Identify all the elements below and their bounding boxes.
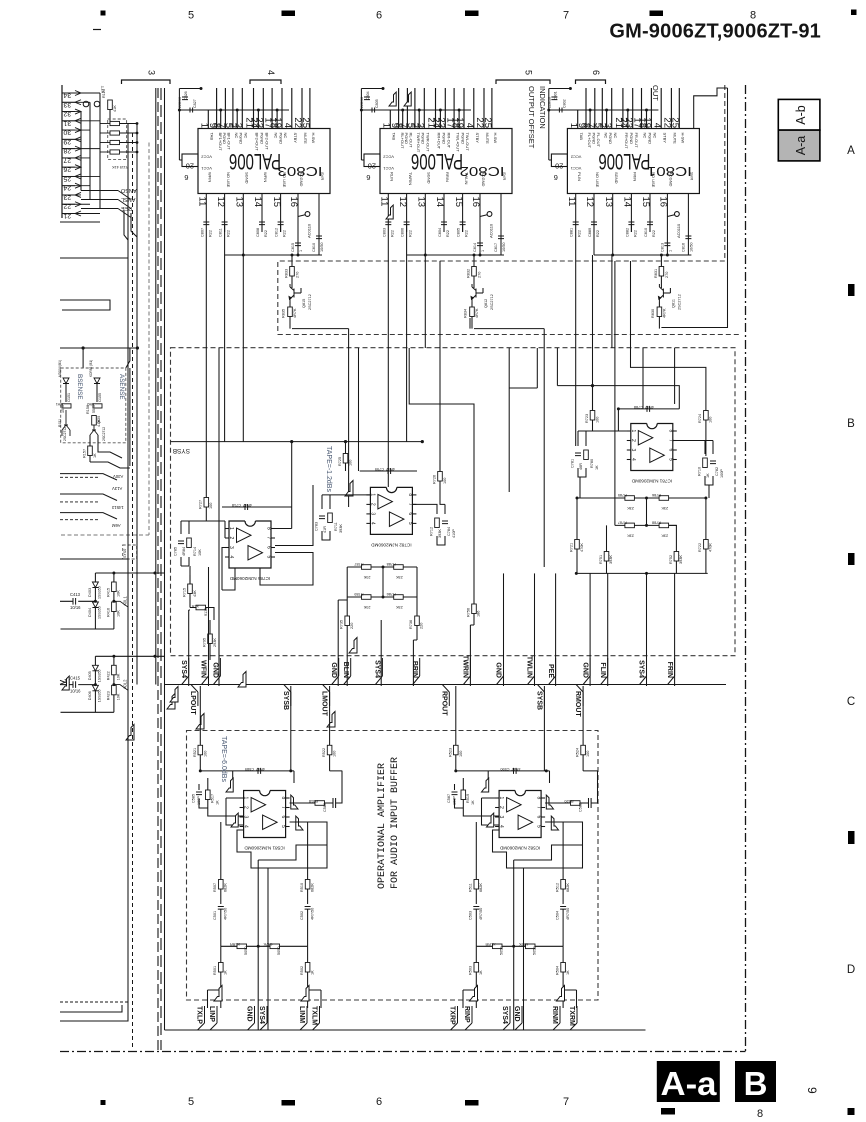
IC802 input RC network xyxy=(382,194,506,257)
svg-text:R502: R502 xyxy=(300,966,304,975)
svg-text:D403: D403 xyxy=(88,588,92,597)
svg-text:7: 7 xyxy=(563,1096,569,1108)
svg-text:SYS4: SYS4 xyxy=(638,660,645,678)
svg-text:5: 5 xyxy=(280,825,286,828)
transistor Q151 2SC2712 xyxy=(62,410,70,436)
fold mark right 1 xyxy=(848,284,855,296)
svg-text:IC581 NJM2060MD: IC581 NJM2060MD xyxy=(244,846,285,851)
capacitor C504 4R7/50 xyxy=(560,907,566,910)
svg-text:14513: 14513 xyxy=(111,505,123,510)
resistor R725 100 xyxy=(343,454,348,464)
svg-text:4R7/50: 4R7/50 xyxy=(479,908,483,920)
resistor R710 1K + capacitor C782 xyxy=(673,441,713,499)
svg-text:23K: 23K xyxy=(661,506,668,510)
svg-text:C589: C589 xyxy=(245,767,254,771)
svg-text:A6M: A6M xyxy=(112,523,121,528)
svg-text:C781: C781 xyxy=(571,459,575,468)
resistor R723 100 xyxy=(590,411,595,421)
svg-text:1SS355: 1SS355 xyxy=(98,586,102,599)
svg-text:R789: R789 xyxy=(354,592,363,596)
svg-text:TAB: TAB xyxy=(392,133,397,141)
svg-text:4R7K: 4R7K xyxy=(263,942,273,946)
svg-text:3: 3 xyxy=(369,512,375,515)
svg-text:SGND: SGND xyxy=(614,172,619,184)
svg-text:R422: R422 xyxy=(107,671,111,680)
svg-text:20: 20 xyxy=(186,162,194,171)
IC802 pin20 notch xyxy=(364,154,380,167)
decoupling caps C805-C806 xyxy=(360,89,362,161)
svg-text:23K: 23K xyxy=(363,605,370,609)
svg-text:FOR AUDIO INPUT BUFFER: FOR AUDIO INPUT BUFFER xyxy=(390,757,401,889)
svg-text:10K: 10K xyxy=(117,610,121,617)
IC803 input RC network xyxy=(200,194,324,257)
op-amp IC581 NJM2060MD xyxy=(240,791,290,851)
svg-text:C801: C801 xyxy=(553,91,557,100)
svg-text:NO USE: NO USE xyxy=(226,172,231,188)
svg-text:7: 7 xyxy=(280,806,286,809)
svg-text:C827: C827 xyxy=(193,99,197,108)
svg-text:10K: 10K xyxy=(198,549,202,556)
svg-text:R22: R22 xyxy=(596,230,600,237)
svg-text:C882: C882 xyxy=(625,228,629,237)
svg-text:470K: 470K xyxy=(580,543,584,552)
svg-text:R711: R711 xyxy=(334,522,338,531)
svg-text:3: 3 xyxy=(630,449,636,452)
svg-text:PEE: PEE xyxy=(547,664,554,678)
svg-text:C806: C806 xyxy=(401,228,405,237)
feedback resistors 23K grid xyxy=(362,565,372,570)
svg-text:C804: C804 xyxy=(438,228,442,237)
svg-text:NC: NC xyxy=(653,133,658,139)
svg-text:1K: 1K xyxy=(706,473,710,478)
resistor R724 100 xyxy=(704,411,709,421)
svg-text:1: 1 xyxy=(668,250,672,252)
svg-text:NC: NC xyxy=(244,133,249,139)
legend box A-a xyxy=(778,130,820,161)
svg-text:23K: 23K xyxy=(363,575,370,579)
svg-text:6: 6 xyxy=(591,70,601,75)
svg-text:TWL-OUT: TWL-OUT xyxy=(465,133,470,152)
signal wires from ICs down to preamp section xyxy=(205,232,207,497)
wire rail under IC803 xyxy=(225,254,322,256)
resistor R735 220 xyxy=(345,616,350,626)
resistor R521 100 xyxy=(199,686,201,745)
svg-text:R504: R504 xyxy=(556,966,560,975)
registration mark bottom bar 1 xyxy=(282,1100,296,1106)
svg-text:1K: 1K xyxy=(566,970,570,975)
svg-text:C502: C502 xyxy=(300,911,304,920)
svg-text:100: 100 xyxy=(443,478,447,484)
svg-text:C785: C785 xyxy=(174,547,178,556)
svg-text:228/16: 228/16 xyxy=(547,97,551,108)
wire step right xyxy=(509,387,537,389)
svg-text:D405: D405 xyxy=(88,671,92,680)
svg-text:C415: C415 xyxy=(70,675,81,680)
svg-text:RL-OUT: RL-OUT xyxy=(409,133,414,148)
svg-text:220: 220 xyxy=(350,623,354,629)
svg-text:1: 1 xyxy=(299,250,303,252)
svg-text:23K: 23K xyxy=(395,575,402,579)
svg-text:C784: C784 xyxy=(447,527,451,536)
svg-text:VCC1: VCC1 xyxy=(201,166,212,171)
svg-text:3: 3 xyxy=(146,70,156,75)
svg-text:MUTE: MUTE xyxy=(485,133,490,145)
svg-text:1K: 1K xyxy=(224,970,228,975)
svg-text:RMOUT: RMOUT xyxy=(574,691,581,717)
svg-text:4R7K: 4R7K xyxy=(662,308,666,318)
diode D151 xyxy=(63,378,69,384)
svg-text:OPERATIONAL AMPLIFIER: OPERATIONAL AMPLIFIER xyxy=(377,763,388,889)
svg-text:1: 1 xyxy=(228,527,234,530)
svg-text:R830: R830 xyxy=(651,309,655,318)
resistor R518 + capacitor C586 feedback xyxy=(290,771,342,808)
svg-text:25: 25 xyxy=(670,117,681,128)
registration mark bottom bar under A-a xyxy=(661,1108,675,1115)
svg-text:BF2-OUT: BF2-OUT xyxy=(265,133,270,151)
svg-text:R788: R788 xyxy=(387,562,396,566)
svg-text:D: D xyxy=(847,964,855,976)
svg-text:270: 270 xyxy=(296,272,300,278)
svg-text:TAPE=-1.2dBs: TAPE=-1.2dBs xyxy=(325,446,332,492)
svg-text:41K: 41K xyxy=(113,105,117,112)
svg-text:5050: 5050 xyxy=(244,947,248,955)
terminal AC0110 IC802 xyxy=(487,212,492,217)
svg-text:PGND: PGND xyxy=(278,133,283,145)
svg-text:100: 100 xyxy=(586,751,590,757)
svg-text:C503: C503 xyxy=(469,911,473,920)
terminal AC0110 IC801 xyxy=(675,212,680,217)
svg-text:5: 5 xyxy=(266,556,272,559)
svg-text:R756: R756 xyxy=(467,608,471,617)
wire IC801 mute and H-SW loop xyxy=(661,88,727,328)
signal flags bottom xyxy=(214,986,222,1002)
svg-text:410P: 410P xyxy=(452,529,456,538)
svg-text:393K: 393K xyxy=(438,529,442,538)
svg-text:VCC2: VCC2 xyxy=(201,155,212,160)
svg-text:2: 2 xyxy=(243,806,249,809)
wire C799 top xyxy=(360,470,417,472)
svg-text:5: 5 xyxy=(407,522,413,525)
svg-text:23K: 23K xyxy=(627,506,634,510)
svg-text:TXRM: TXRM xyxy=(568,1006,575,1026)
svg-text:25: 25 xyxy=(482,117,493,128)
svg-text:R512: R512 xyxy=(556,883,560,892)
svg-text:VCC2: VCC2 xyxy=(570,155,581,160)
signal flags above IC802 xyxy=(389,92,396,106)
svg-text:R785: R785 xyxy=(618,493,627,497)
svg-text:NC: NC xyxy=(604,133,609,139)
svg-text:R520: R520 xyxy=(564,799,573,803)
capacitor C589 xyxy=(258,768,261,774)
capacitor C781 + resistor R780 xyxy=(577,431,631,498)
svg-text:PGND: PGND xyxy=(442,133,447,145)
svg-text:SVR: SVR xyxy=(502,172,507,180)
muting transistor cluster R832 xyxy=(464,254,495,329)
capacitor C788 xyxy=(618,408,680,410)
svg-text:5050: 5050 xyxy=(533,947,537,955)
svg-text:TWRIN: TWRIN xyxy=(462,655,469,678)
vertical bus solid x128 xyxy=(127,124,129,1010)
grey dashed wire y535 xyxy=(61,534,149,536)
svg-text:STBY: STBY xyxy=(475,133,480,144)
wires IC782 to bus xyxy=(338,600,417,686)
signal flags left column xyxy=(126,725,134,741)
svg-text:270: 270 xyxy=(478,272,482,278)
resistor R510 682K xyxy=(307,822,309,880)
svg-text:R519: R519 xyxy=(466,794,470,803)
svg-text:H-SW: H-SW xyxy=(681,133,686,144)
wire bottom rail IC781 xyxy=(576,572,707,574)
muting transistor cluster R831 xyxy=(651,254,682,329)
svg-text:10K: 10K xyxy=(117,673,121,680)
svg-text:228/16: 228/16 xyxy=(360,97,364,108)
svg-text:23K: 23K xyxy=(627,533,634,537)
svg-text:5: 5 xyxy=(524,70,534,75)
svg-text:10K: 10K xyxy=(117,590,121,597)
section bracket 5 xyxy=(496,80,550,84)
svg-text:4: 4 xyxy=(282,123,293,128)
svg-text:100: 100 xyxy=(709,417,713,423)
svg-text:8: 8 xyxy=(266,527,272,530)
svg-text:C788: C788 xyxy=(634,405,643,409)
svg-text:FRIN: FRIN xyxy=(666,662,673,678)
svg-text:R524: R524 xyxy=(576,748,580,757)
vertical bus solid x164.5 xyxy=(164,88,166,1012)
svg-text:TWLIN: TWLIN xyxy=(464,172,469,185)
wires left buffer output loop xyxy=(237,822,327,868)
svg-text:A-b: A-b xyxy=(794,105,808,125)
vertical bus dashed x132.5 xyxy=(132,133,134,1050)
svg-text:R151: R151 xyxy=(58,419,62,427)
svg-text:NO USE: NO USE xyxy=(595,172,600,188)
svg-text:C783: C783 xyxy=(315,522,319,531)
svg-text:KDR82 (B1): KDR82 (B1) xyxy=(89,360,93,377)
svg-text:STBY: STBY xyxy=(662,133,667,144)
resistor R156 4.7K xyxy=(92,416,97,426)
svg-text:C802: C802 xyxy=(562,99,566,108)
signal flag xyxy=(345,481,353,497)
svg-text:SYS4: SYS4 xyxy=(374,660,381,678)
wires right buffer output loop xyxy=(493,822,583,868)
svg-text:25: 25 xyxy=(300,117,311,128)
wire RMOUT down to R524 xyxy=(582,686,584,745)
resistor R524 100 xyxy=(581,745,586,755)
wires left edge mid xyxy=(60,474,117,519)
svg-text:1SS355: 1SS355 xyxy=(98,606,102,619)
svg-text:GND: GND xyxy=(212,662,219,678)
dashed box op-amp input buffer xyxy=(187,731,599,1001)
svg-text:C813: C813 xyxy=(660,243,664,252)
svg-text:1K: 1K xyxy=(471,800,475,805)
svg-text:SGND: SGND xyxy=(427,172,432,184)
svg-text:3: 3 xyxy=(243,816,249,819)
svg-text:WFIN: WFIN xyxy=(200,660,207,678)
svg-text:6: 6 xyxy=(184,173,188,182)
wire IC803 mute to preamp box xyxy=(292,328,349,330)
svg-text:PAL006: PAL006 xyxy=(411,149,463,174)
svg-text:7: 7 xyxy=(667,439,673,442)
svg-text:ASENSE: ASENSE xyxy=(118,374,125,400)
svg-text:C807: C807 xyxy=(200,228,204,237)
resistor R504 1K xyxy=(562,946,564,962)
svg-text:R517: R517 xyxy=(210,794,214,803)
svg-text:Q815: Q815 xyxy=(302,299,306,308)
wires ANS to lower column xyxy=(124,210,137,240)
svg-text:R725: R725 xyxy=(338,457,342,466)
resistor R502 1K xyxy=(307,946,309,962)
vertical bus long dash x161 xyxy=(160,88,162,1050)
connector CN body line xyxy=(61,85,63,218)
capacitor C503 4R7/50 electrolytic xyxy=(473,907,479,910)
svg-text:8: 8 xyxy=(536,797,542,800)
IC IC801 PAL006 power amplifier xyxy=(547,87,699,207)
svg-text:R518: R518 xyxy=(309,799,318,803)
feedback resistors 23K grid IC781 xyxy=(625,496,635,501)
svg-text:GND: GND xyxy=(330,662,337,678)
svg-text:C718: C718 xyxy=(232,503,241,507)
registration mark top bar 3 xyxy=(650,11,664,17)
resistor R716 xyxy=(196,605,206,610)
wire LMOUT down to R522 xyxy=(329,686,331,745)
IC803 pin20 notch xyxy=(182,154,198,167)
svg-text:ACGND: ACGND xyxy=(481,172,486,187)
svg-text:7: 7 xyxy=(407,503,413,506)
svg-text:C810: C810 xyxy=(644,228,648,237)
svg-text:R787: R787 xyxy=(354,562,363,566)
svg-text:STBY: STBY xyxy=(293,133,298,144)
svg-text:5050: 5050 xyxy=(277,947,281,955)
svg-text:R833: R833 xyxy=(285,269,289,278)
decoupling caps C825-C827 xyxy=(178,89,180,161)
svg-text:4R7/50: 4R7/50 xyxy=(566,908,570,920)
wire SYSB right down xyxy=(543,686,545,771)
svg-text:8: 8 xyxy=(757,1108,763,1120)
svg-text:R722: R722 xyxy=(698,543,702,552)
wires right buffer input xyxy=(482,771,500,825)
svg-text:NO USE: NO USE xyxy=(651,172,656,188)
svg-text:PGND: PGND xyxy=(591,133,596,145)
capacitor C585 + resistor R517 xyxy=(199,778,244,816)
svg-text:PEE: PEE xyxy=(121,205,132,211)
svg-text:100: 100 xyxy=(209,503,213,509)
wires around IC785 xyxy=(222,485,313,590)
svg-text:RRIN: RRIN xyxy=(445,172,450,182)
svg-text:C590: C590 xyxy=(500,767,509,771)
resistor R756 186 xyxy=(472,604,477,614)
svg-text:C889: C889 xyxy=(588,228,592,237)
diode D155 xyxy=(94,378,100,384)
resistor R715 43K xyxy=(189,575,191,584)
svg-text:PAL006: PAL006 xyxy=(229,149,281,174)
svg-text:6: 6 xyxy=(407,512,413,515)
registration mark bottom bar 2 xyxy=(465,1100,479,1106)
svg-text:5510: 5510 xyxy=(92,405,96,413)
svg-text:100: 100 xyxy=(349,460,353,466)
section bracket 6 xyxy=(576,80,606,84)
svg-text:5: 5 xyxy=(667,458,673,461)
dashed region boundary upper step xyxy=(278,85,725,335)
svg-text:Q812: Q812 xyxy=(484,299,488,308)
svg-text:AC0110: AC0110 xyxy=(489,223,494,238)
svg-text:C810: C810 xyxy=(312,243,316,252)
svg-text:10/50: 10/50 xyxy=(320,242,324,252)
wire cap rail right buffer xyxy=(456,770,550,772)
bias resistors R585 R586 4R7K xyxy=(221,945,308,947)
svg-text:2: 2 xyxy=(630,439,636,442)
svg-text:100: 100 xyxy=(333,751,337,757)
svg-text:3: 3 xyxy=(498,816,504,819)
svg-text:10/16: 10/16 xyxy=(70,605,81,610)
small dashed box SYS xyxy=(123,545,137,559)
svg-text:A13V: A13V xyxy=(112,486,122,491)
svg-text:SYSB: SYSB xyxy=(535,691,542,710)
resistor R157 1K xyxy=(89,435,91,446)
wire C718 top xyxy=(222,442,292,507)
svg-text:C804: C804 xyxy=(366,91,370,100)
svg-text:PGND: PGND xyxy=(238,133,243,145)
svg-text:23K: 23K xyxy=(395,605,402,609)
svg-text:3: 3 xyxy=(602,123,613,128)
svg-text:1K: 1K xyxy=(595,465,599,470)
bias resistors R587 R588 4R7K xyxy=(476,945,563,947)
svg-text:GND: GND xyxy=(513,1006,520,1022)
wire SYSB rail xyxy=(171,441,424,443)
signal flags xyxy=(482,778,489,792)
decoupling caps C801-C802 xyxy=(548,89,550,161)
resistor R512 682K xyxy=(562,822,564,880)
muting transistor cluster R833 xyxy=(282,254,313,329)
resistor 1510 xyxy=(62,404,71,408)
svg-text:C812: C812 xyxy=(275,228,279,237)
svg-text:C782: C782 xyxy=(715,467,719,476)
svg-text:10/50: 10/50 xyxy=(502,242,506,252)
svg-text:1K: 1K xyxy=(479,970,483,975)
wire WFIN down xyxy=(208,567,210,686)
svg-text:VCC1: VCC1 xyxy=(383,166,394,171)
svg-text:R795: R795 xyxy=(203,638,207,647)
svg-text:2: 2 xyxy=(369,503,375,506)
svg-text:R22: R22 xyxy=(578,230,582,237)
svg-text:R832: R832 xyxy=(467,269,471,278)
svg-text:4R47: 4R47 xyxy=(256,767,265,771)
svg-text:TAB: TAB xyxy=(210,133,215,141)
sheet ref box B bottom xyxy=(735,1061,776,1102)
vertical bus dashed grey x149 xyxy=(148,143,150,536)
svg-text:LMOUT: LMOUT xyxy=(321,691,328,717)
svg-text:R22: R22 xyxy=(652,230,656,237)
main horizontal bus mid xyxy=(165,684,727,686)
main horizontal bus bottom xyxy=(165,1012,646,1030)
svg-text:R22: R22 xyxy=(283,230,287,237)
svg-text:A-a: A-a xyxy=(794,136,808,156)
svg-text:C587: C587 xyxy=(447,794,451,803)
svg-text:C817: C817 xyxy=(494,243,498,252)
svg-text:8: 8 xyxy=(407,493,413,496)
svg-text:FLIN: FLIN xyxy=(599,662,606,678)
capacitor C799 xyxy=(388,468,391,474)
svg-text:A-a: A-a xyxy=(661,1065,718,1102)
resistor R752 393K xyxy=(674,552,679,562)
svg-text:R752: R752 xyxy=(669,555,673,564)
svg-text:BF2+OUT: BF2+OUT xyxy=(255,133,260,152)
svg-text:4R7K: 4R7K xyxy=(519,942,529,946)
svg-text:TWRIN: TWRIN xyxy=(408,172,413,185)
svg-text:RINP: RINP xyxy=(463,1006,470,1023)
svg-text:23K: 23K xyxy=(661,533,668,537)
svg-text:6: 6 xyxy=(280,816,286,819)
svg-text:5: 5 xyxy=(188,1096,194,1108)
svg-text:GND: GND xyxy=(581,662,588,678)
